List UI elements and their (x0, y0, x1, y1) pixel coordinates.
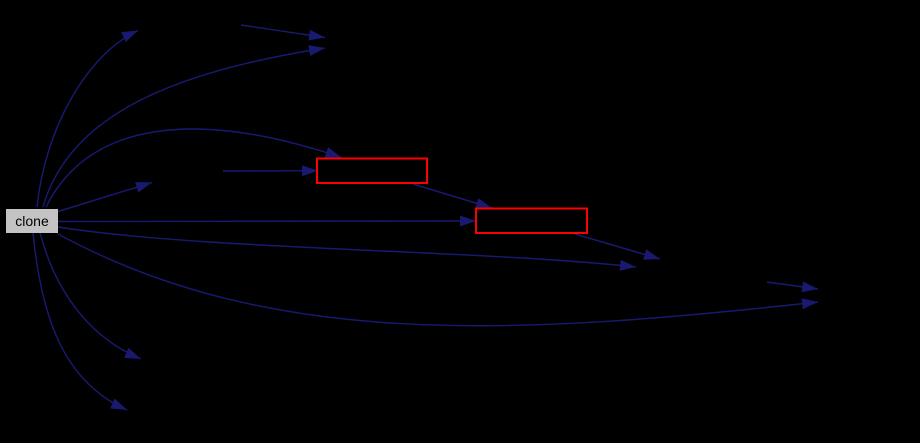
svg-text:clone: clone (15, 213, 49, 229)
